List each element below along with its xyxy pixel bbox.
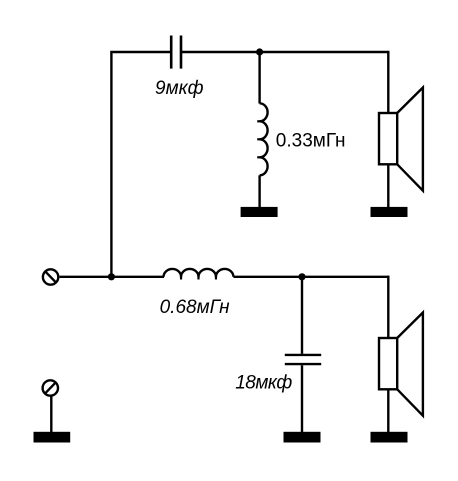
ground (below woofer) — [371, 432, 408, 443]
input terminal (ground side) — [43, 380, 58, 395]
node: junction of top rail and shunt inductor — [256, 48, 263, 55]
wire: junction to inductor 0.68мГн — [111, 276, 164, 278]
inductor 0.68мГн (horizontal, 4 loops) — [164, 269, 234, 277]
wire: inductor 0.33мГн to ground — [258, 175, 260, 207]
inductor cusp ticks — [257, 121, 262, 157]
wire: woofer to ground — [387, 389, 389, 432]
ground (below tweeter) — [371, 207, 408, 217]
speaker (tweeter) cone — [397, 88, 423, 191]
wire: top rail left segment (left vertical riser to 9мкф capacitor) — [111, 52, 171, 277]
ground (below input terminal) — [34, 432, 71, 443]
wire: junction down to inductor 0.33мГн — [258, 52, 260, 104]
input terminal (signal) — [43, 269, 58, 284]
wire: capacitor 18мкф to ground — [301, 365, 303, 432]
ground (below 0.33мГн) — [241, 207, 278, 217]
node: junction of bottom rail and shunt capacitor — [298, 273, 305, 280]
wire: top rail right segment (capacitor to tweeter) — [181, 51, 388, 53]
wire: top rail down to tweeter — [387, 51, 389, 114]
ground (below 18мкф) — [284, 432, 321, 443]
svg-text:18мкф: 18мкф — [235, 372, 292, 393]
wire: ground terminal to ground symbol — [50, 396, 52, 433]
svg-text:0.33мГн: 0.33мГн — [276, 130, 346, 151]
inductor 0.33мГн (vertical, 4 loops) — [260, 103, 268, 175]
wire: input terminal to junction — [60, 276, 112, 278]
speaker (tweeter) magnet rectangle — [379, 113, 397, 164]
node: junction of input, top branch and series inductor — [108, 273, 115, 280]
capacitor 9мкф plates — [171, 36, 181, 69]
svg-text:0.68мГн: 0.68мГн — [160, 297, 231, 318]
wire: junction down to capacitor 18мкф — [301, 277, 303, 354]
wire: bottom rail down to woofer — [387, 276, 389, 339]
inductor cusp ticks — [181, 275, 216, 280]
wire: tweeter to ground — [387, 164, 389, 207]
wire: inductor 0.68мГн to woofer — [233, 276, 388, 278]
svg-text:9мкф: 9мкф — [155, 78, 204, 99]
capacitor 18мкф plates — [285, 355, 321, 364]
speaker (woofer) magnet rectangle — [379, 338, 397, 389]
speaker (woofer) cone — [397, 313, 423, 416]
